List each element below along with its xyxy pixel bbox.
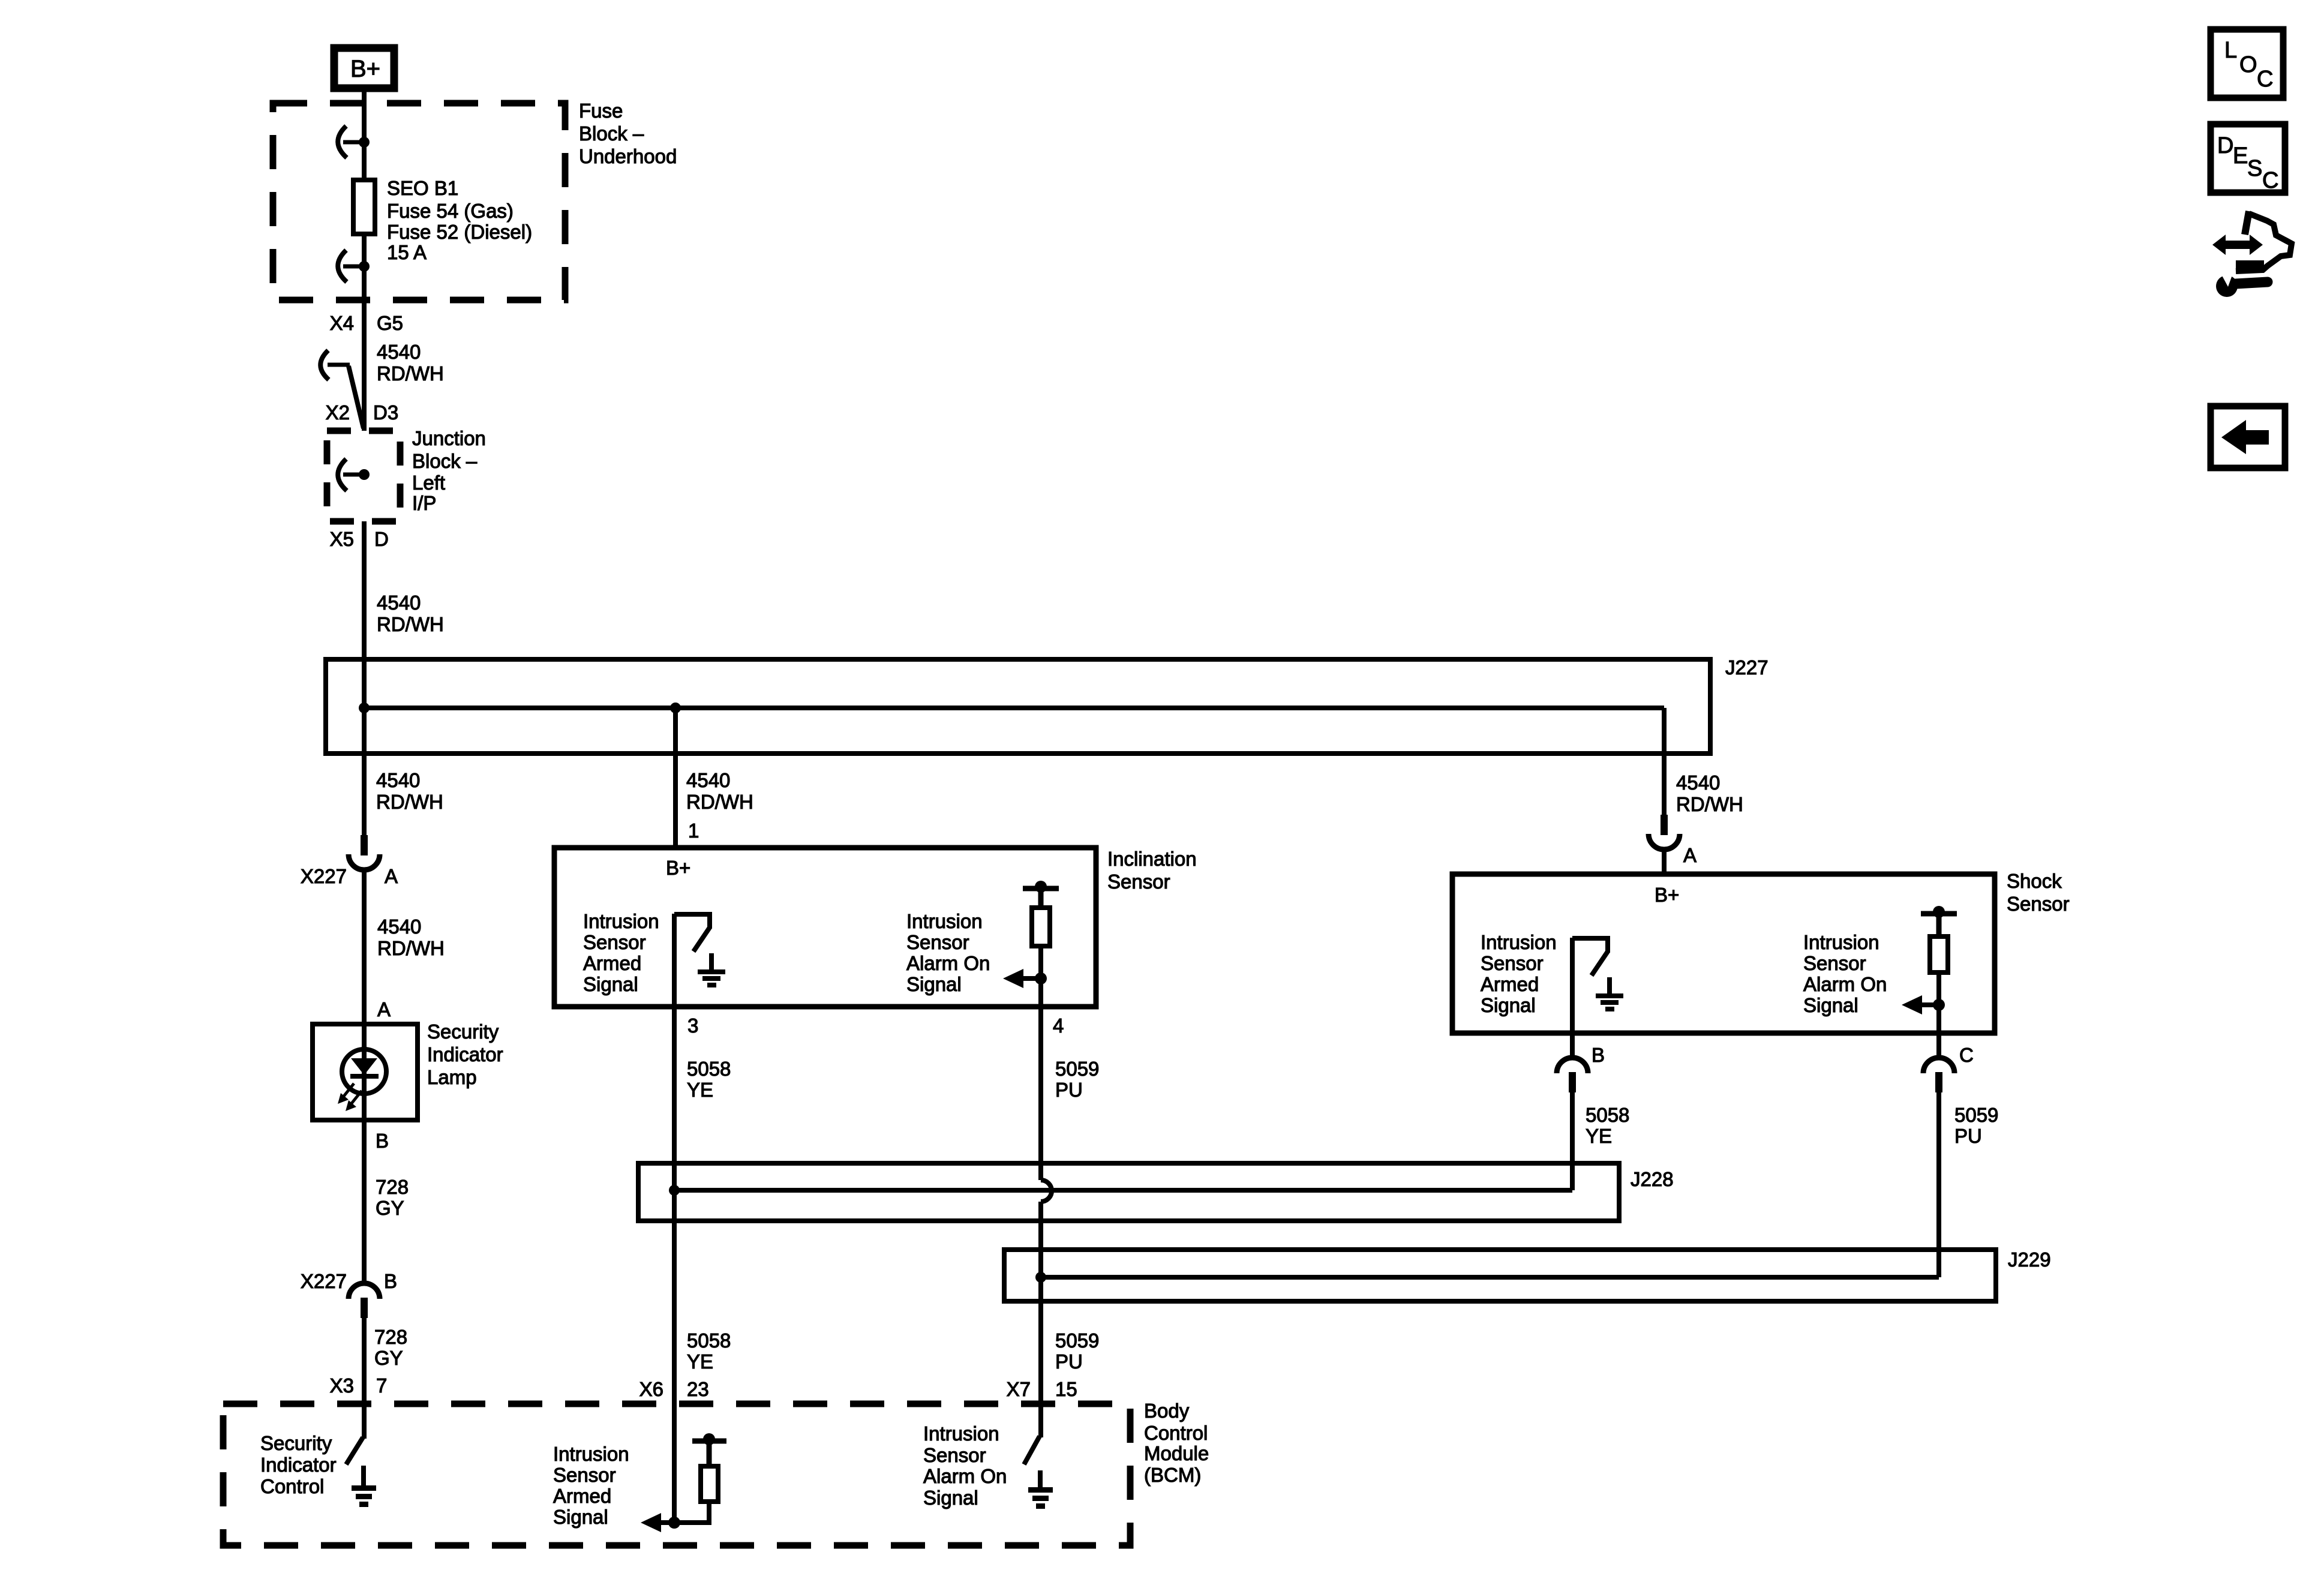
svg-text:Left: Left [412, 472, 445, 494]
connector at shock pin C [1923, 1033, 1954, 1277]
svg-text:4540: 4540 [377, 915, 421, 938]
svg-text:Sensor: Sensor [583, 931, 646, 953]
svg-text:PU: PU [1954, 1125, 1982, 1147]
svg-text:4540: 4540 [686, 769, 730, 791]
svg-text:4540: 4540 [377, 592, 421, 614]
wire pin 3 to J228 [672, 1007, 677, 1190]
svg-text:J227: J227 [1725, 656, 1768, 679]
svg-text:7: 7 [376, 1374, 387, 1397]
svg-text:SEO B1: SEO B1 [387, 177, 458, 199]
wire pin 4 to J229 (with hop over J228 bus) [1038, 1007, 1043, 1180]
ground (shock switch) [1596, 977, 1623, 1011]
J229 internal bus wire [1041, 1275, 1939, 1280]
svg-text:X5: X5 [330, 528, 354, 550]
node on J229 bus [1035, 1272, 1046, 1283]
svg-text:Control: Control [1144, 1422, 1208, 1444]
svg-text:5058: 5058 [687, 1329, 731, 1352]
resistor: intrusion sensor alarm on signal (inclination) [1023, 881, 1059, 1007]
svg-text:5059: 5059 [1055, 1329, 1099, 1352]
junction block - left I/P dashed box [327, 431, 400, 521]
svg-text:G5: G5 [377, 312, 403, 334]
svg-text:Lamp: Lamp [427, 1066, 477, 1088]
svg-text:728: 728 [374, 1326, 407, 1348]
switch: intrusion sensor armed signal (shock) [1572, 938, 1610, 1033]
svg-text:E: E [2233, 143, 2248, 169]
junction block clip terminal [338, 459, 370, 491]
LOC reference icon [2211, 29, 2283, 98]
svg-text:D: D [2217, 133, 2233, 158]
fuse SEO B1 Fuse 54/52 15A [353, 180, 375, 234]
ground (inclination switch) [698, 953, 725, 987]
svg-text:X2: X2 [326, 401, 350, 424]
fuse clip terminal (top) [338, 126, 370, 158]
svg-text:Signal: Signal [1803, 994, 1858, 1016]
svg-text:Sensor: Sensor [1481, 952, 1544, 974]
svg-text:5058: 5058 [687, 1058, 731, 1080]
svg-text:J229: J229 [2008, 1248, 2051, 1271]
svg-text:Sensor: Sensor [906, 931, 969, 953]
security indicator lamp box [313, 1024, 418, 1120]
ground (security indicator control) [352, 1466, 376, 1507]
switch: intrusion sensor alarm on signal (BCM) [1024, 1404, 1041, 1464]
svg-text:Junction: Junction [412, 427, 486, 449]
svg-text:Signal: Signal [553, 1506, 608, 1528]
svg-text:A: A [385, 865, 398, 887]
svg-text:Armed: Armed [553, 1485, 611, 1507]
battery feed B+ box [334, 48, 394, 88]
svg-text:B: B [1592, 1044, 1605, 1066]
svg-text:C: C [2257, 67, 2273, 92]
svg-text:RD/WH: RD/WH [377, 362, 444, 385]
svg-text:4540: 4540 [376, 769, 420, 791]
in-line connector X2/D3 symbol [320, 350, 364, 428]
node on J228 bus [669, 1185, 680, 1196]
svg-text:Armed: Armed [583, 952, 641, 974]
J228 internal bus wire [674, 1188, 1572, 1193]
svg-text:B+: B+ [350, 56, 380, 82]
svg-text:Security: Security [260, 1432, 332, 1454]
splice pack J227 box [326, 659, 1710, 754]
svg-text:X3: X3 [330, 1374, 354, 1397]
svg-text:23: 23 [687, 1378, 709, 1400]
body control module (BCM) dashed box [223, 1404, 1130, 1545]
fuse block - underhood dashed box [273, 103, 565, 300]
svg-text:PU: PU [1055, 1079, 1083, 1101]
svg-text:L: L [2224, 38, 2237, 63]
J227 internal bus wire [364, 706, 1664, 710]
svg-text:X6: X6 [639, 1378, 663, 1400]
shock sensor box [1452, 874, 1995, 1033]
svg-text:Intrusion: Intrusion [1803, 931, 1879, 953]
svg-text:Intrusion: Intrusion [583, 910, 659, 932]
svg-text:Sensor: Sensor [2007, 893, 2070, 915]
wire B+ to fuse block [362, 92, 367, 180]
svg-text:RD/WH: RD/WH [686, 791, 753, 813]
splice pack J229 box [1004, 1250, 1996, 1301]
svg-text:GY: GY [376, 1197, 404, 1219]
svg-text:J228: J228 [1631, 1168, 1674, 1190]
svg-text:3: 3 [687, 1014, 698, 1037]
splice pack J228 box [638, 1163, 1619, 1221]
svg-text:Inclination: Inclination [1107, 848, 1197, 870]
svg-text:X227: X227 [301, 865, 347, 887]
wire X227 A to lamp [362, 871, 367, 1024]
svg-text:Underhood: Underhood [579, 145, 677, 167]
connector at shock pin B [1557, 1033, 1588, 1190]
svg-text:X4: X4 [330, 312, 354, 334]
wire J227 to inclination sensor pin 1 [673, 708, 678, 848]
wire junction block to J227 [362, 521, 367, 708]
LED lamp symbol [338, 1024, 386, 1120]
svg-text:Sensor: Sensor [923, 1444, 986, 1466]
svg-text:Module: Module [1144, 1442, 1209, 1464]
svg-text:Security: Security [427, 1020, 499, 1043]
svg-text:C: C [2262, 168, 2278, 193]
svg-text:Alarm On: Alarm On [1803, 973, 1887, 995]
svg-text:YE: YE [687, 1079, 713, 1101]
svg-text:Sensor: Sensor [1803, 952, 1866, 974]
switch: intrusion sensor armed signal (inclination) [674, 914, 712, 1007]
svg-text:4540: 4540 [1676, 772, 1720, 794]
svg-text:GY: GY [374, 1347, 403, 1369]
svg-text:Sensor: Sensor [1107, 870, 1170, 893]
svg-text:4: 4 [1053, 1014, 1064, 1037]
svg-text:Alarm On: Alarm On [923, 1465, 1007, 1487]
svg-text:D: D [374, 528, 389, 550]
connector pin at shock sensor A [1649, 815, 1680, 874]
svg-text:RD/WH: RD/WH [377, 937, 445, 959]
node on J227 bus (left wire) [359, 703, 370, 713]
DESC reference icon [2211, 124, 2285, 193]
svg-text:S: S [2247, 156, 2262, 181]
svg-text:Armed: Armed [1481, 973, 1539, 995]
svg-text:RD/WH: RD/WH [376, 791, 443, 813]
svg-text:Intrusion: Intrusion [553, 1443, 629, 1465]
svg-text:Intrusion: Intrusion [1481, 931, 1557, 953]
svg-text:O: O [2239, 52, 2257, 77]
svg-text:5059: 5059 [1055, 1058, 1099, 1080]
svg-text:5059: 5059 [1954, 1104, 1998, 1126]
svg-text:I/P: I/P [412, 492, 436, 514]
svg-text:Sensor: Sensor [553, 1464, 616, 1486]
svg-text:Signal: Signal [1481, 994, 1536, 1016]
wire fuse to clip 2 [362, 234, 367, 300]
output arrow (shock alarm on) [1902, 995, 1945, 1014]
wire J229 to BCM X7 [1038, 1277, 1043, 1404]
connector X227 pin B [349, 1283, 380, 1318]
wire J228 to BCM X6 [672, 1190, 677, 1404]
svg-text:A: A [1683, 844, 1697, 866]
ground (BCM alarm on signal) [1028, 1470, 1053, 1509]
svg-text:Signal: Signal [906, 973, 962, 995]
resistor pull-up (BCM armed signal) [674, 1433, 726, 1523]
node on J227 bus (middle branch) [670, 703, 681, 713]
svg-text:X227: X227 [301, 1270, 347, 1292]
svg-text:Indicator: Indicator [260, 1454, 337, 1476]
svg-text:X7: X7 [1007, 1378, 1031, 1400]
svg-text:Intrusion: Intrusion [923, 1422, 999, 1445]
svg-text:B: B [384, 1270, 397, 1292]
svg-text:Intrusion: Intrusion [906, 910, 983, 932]
svg-text:D3: D3 [373, 401, 398, 424]
svg-text:728: 728 [376, 1176, 409, 1198]
svg-text:15: 15 [1055, 1378, 1077, 1400]
wire X227 B to BCM X3 [362, 1318, 367, 1404]
wire J227 to shock sensor pin A [1662, 708, 1667, 815]
svg-text:PU: PU [1055, 1350, 1083, 1373]
svg-text:B+: B+ [666, 857, 690, 879]
output arrow (inclination alarm on) [1003, 969, 1047, 988]
svg-text:YE: YE [687, 1350, 713, 1373]
svg-text:RD/WH: RD/WH [377, 613, 444, 635]
svg-text:B+: B+ [1655, 884, 1679, 906]
wire fuse block to junction block [362, 300, 367, 431]
wire J227 to X227 A [362, 708, 367, 835]
inclination sensor box [554, 848, 1096, 1007]
resistor: intrusion sensor alarm on signal (shock) [1921, 906, 1957, 1033]
svg-text:RD/WH: RD/WH [1676, 793, 1743, 815]
fuse clip terminal (bottom) [338, 250, 370, 282]
svg-text:YE: YE [1586, 1125, 1612, 1147]
svg-text:Signal: Signal [923, 1487, 978, 1509]
svg-text:Block –: Block – [412, 450, 478, 472]
svg-text:A: A [377, 998, 391, 1020]
wire lamp to X227 B [362, 1120, 367, 1284]
connector end-view icon (double arrow, body outline, wrench) [2212, 211, 2292, 297]
connector X227 pin A [349, 835, 380, 870]
svg-text:C: C [1959, 1044, 1974, 1066]
svg-text:5058: 5058 [1586, 1104, 1629, 1126]
svg-text:Fuse 54 (Gas): Fuse 54 (Gas) [387, 200, 514, 222]
svg-text:1: 1 [688, 819, 699, 842]
svg-text:Shock: Shock [2007, 870, 2062, 892]
switch: security indicator control (BCM) [346, 1404, 364, 1464]
back arrow icon [2211, 406, 2285, 468]
svg-text:Signal: Signal [583, 973, 638, 995]
input arrow + pull-up: intrusion sensor armed signal (BCM) [641, 1404, 680, 1532]
svg-text:Block –: Block – [579, 122, 644, 145]
svg-text:Fuse: Fuse [579, 100, 623, 122]
svg-text:Fuse 52 (Diesel): Fuse 52 (Diesel) [387, 221, 532, 243]
svg-text:Body: Body [1144, 1400, 1190, 1422]
svg-text:Alarm On: Alarm On [906, 952, 990, 974]
svg-text:Indicator: Indicator [427, 1043, 503, 1065]
svg-text:B: B [376, 1130, 389, 1152]
svg-text:Control: Control [260, 1475, 324, 1497]
svg-text:4540: 4540 [377, 341, 421, 363]
svg-text:15 A: 15 A [387, 241, 427, 263]
svg-text:(BCM): (BCM) [1144, 1464, 1201, 1486]
